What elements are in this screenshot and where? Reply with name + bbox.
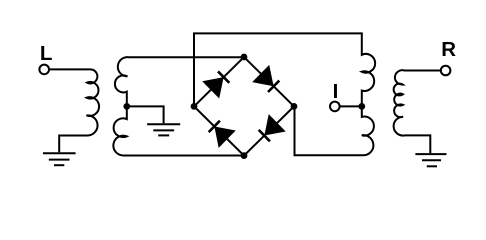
svg-text:R: R (441, 38, 456, 61)
svg-text:L: L (40, 42, 53, 65)
svg-text:I: I (333, 80, 339, 103)
